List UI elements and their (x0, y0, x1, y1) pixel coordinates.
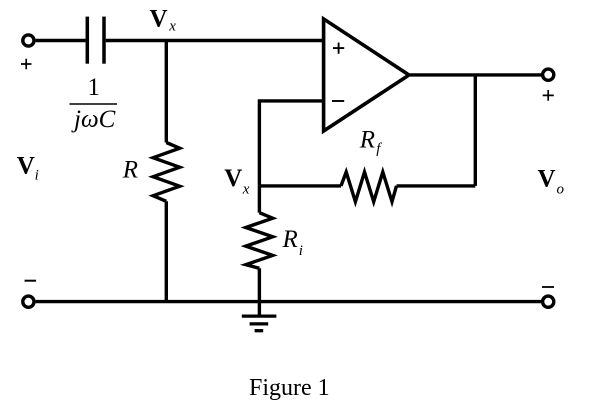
svg-text:1: 1 (88, 74, 101, 101)
svg-text:R: R (359, 126, 375, 153)
wire output branch vertical (474, 75, 477, 186)
ground (242, 314, 277, 317)
svg-text:R: R (122, 157, 138, 184)
terminal bottom-left (23, 296, 34, 307)
svg-text:R: R (282, 226, 298, 253)
svg-text:jωC: jωC (71, 106, 116, 133)
svg-text:x: x (242, 182, 250, 198)
terminal bottom-right (543, 296, 554, 307)
svg-text:i: i (299, 243, 303, 259)
wire capacitor to op-amp noninverting input (106, 39, 324, 42)
wire Ri to ground (258, 268, 261, 316)
svg-text:i: i (35, 168, 39, 184)
plus sign input terminal (21, 59, 31, 69)
wire Rf to output branch (397, 184, 476, 187)
capacitor C left plate (86, 17, 90, 64)
bottom rail wire (36, 300, 541, 303)
terminal output top-right (543, 69, 554, 80)
wire op-amp output (409, 73, 541, 76)
op-amp minus sign (332, 100, 344, 102)
op-amp plus sign (333, 43, 344, 54)
resistor Rf (341, 172, 397, 202)
resistor R (153, 143, 180, 202)
svg-text:V: V (150, 5, 168, 32)
terminal input top-left (23, 35, 34, 46)
wire R to bottom rail (165, 201, 168, 301)
resistor Ri (246, 213, 273, 269)
svg-text:V: V (538, 166, 556, 193)
svg-text:V: V (224, 165, 242, 192)
svg-text:o: o (557, 181, 565, 197)
wire input to capacitor (36, 39, 86, 42)
minus sign output bottom (542, 286, 554, 288)
op-amp U1 triangle (324, 19, 409, 131)
wire node Vx down to R (165, 41, 168, 143)
wire inverting node down to Ri (258, 186, 261, 213)
plus sign output terminal (543, 90, 554, 101)
minus sign input bottom (25, 280, 36, 282)
svg-text:V: V (17, 153, 35, 180)
wire inverting input (259, 101, 323, 186)
fraction bar (70, 103, 118, 105)
capacitor C right plate (102, 17, 106, 64)
svg-text:Figure 1: Figure 1 (249, 375, 330, 401)
svg-text:x: x (168, 18, 176, 34)
wire node Vx2 to Rf (259, 184, 341, 187)
